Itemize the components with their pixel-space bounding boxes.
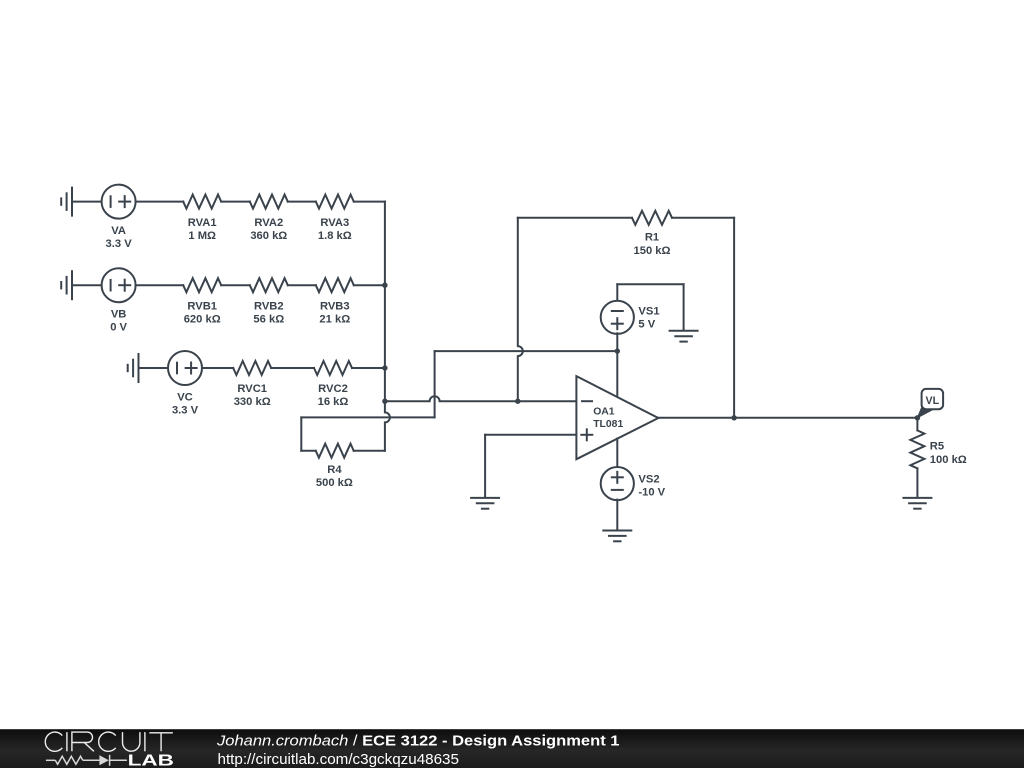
- svg-text:VB: VB: [111, 309, 127, 321]
- svg-text:16 kΩ: 16 kΩ: [318, 396, 349, 408]
- svg-text:http://circuitlab.com/c3gckqzu: http://circuitlab.com/c3gckqzu48635: [218, 751, 459, 768]
- svg-text:330 kΩ: 330 kΩ: [234, 396, 271, 408]
- svg-text:VC: VC: [177, 392, 193, 404]
- svg-text:5 V: 5 V: [638, 318, 655, 330]
- svg-text:RVB2: RVB2: [254, 300, 284, 312]
- svg-text:RVA3: RVA3: [320, 217, 349, 229]
- svg-text:3.3 V: 3.3 V: [172, 405, 199, 417]
- svg-text:RVB1: RVB1: [187, 300, 217, 312]
- svg-text:VS1: VS1: [638, 305, 659, 317]
- svg-text:Johann.crombach / ECE 3122 - D: Johann.crombach / ECE 3122 - Design Assi…: [216, 732, 620, 749]
- svg-text:VS2: VS2: [638, 474, 659, 486]
- svg-text:500 kΩ: 500 kΩ: [316, 477, 353, 489]
- svg-text:RVA1: RVA1: [188, 217, 217, 229]
- svg-text:R5: R5: [930, 441, 944, 453]
- svg-text:-10 V: -10 V: [638, 487, 665, 499]
- svg-text:R4: R4: [327, 464, 342, 476]
- svg-text:1 MΩ: 1 MΩ: [188, 230, 216, 242]
- svg-text:56 kΩ: 56 kΩ: [253, 313, 284, 325]
- svg-text:VL: VL: [926, 395, 940, 407]
- svg-text:360 kΩ: 360 kΩ: [250, 230, 287, 242]
- svg-text:0 V: 0 V: [110, 322, 127, 334]
- svg-text:1.8 kΩ: 1.8 kΩ: [318, 230, 352, 242]
- svg-text:RVB3: RVB3: [320, 300, 350, 312]
- svg-text:R1: R1: [645, 232, 659, 244]
- svg-text:RVC2: RVC2: [318, 383, 348, 395]
- svg-text:21 kΩ: 21 kΩ: [319, 313, 350, 325]
- svg-text:RVA2: RVA2: [254, 217, 283, 229]
- svg-text:LAB: LAB: [128, 753, 174, 768]
- svg-text:RVC1: RVC1: [237, 383, 267, 395]
- svg-text:VA: VA: [111, 225, 126, 237]
- svg-text:3.3 V: 3.3 V: [106, 238, 133, 250]
- svg-text:TL081: TL081: [593, 419, 623, 430]
- svg-text:OA1: OA1: [593, 407, 615, 418]
- svg-text:150 kΩ: 150 kΩ: [634, 245, 671, 257]
- svg-text:100 kΩ: 100 kΩ: [930, 454, 967, 466]
- svg-text:620 kΩ: 620 kΩ: [184, 313, 221, 325]
